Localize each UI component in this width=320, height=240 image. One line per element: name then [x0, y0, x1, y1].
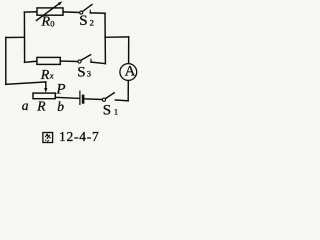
switch S3 blade [81, 55, 91, 61]
resistor R0 arrowhead [58, 1, 63, 5]
wire junction horizontal [105, 36, 129, 38]
svg-text:0: 0 [50, 19, 54, 29]
svg-text:x: x [49, 70, 54, 80]
svg-text:P: P [55, 81, 65, 97]
switch S2 contact tick [89, 10, 91, 13]
wire left vertical of parallel section [23, 12, 25, 62]
switch S2 blade [83, 5, 92, 12]
switch S1 blade [106, 93, 115, 99]
svg-text:a: a [22, 98, 29, 113]
wire b terminal to battery [55, 97, 79, 98]
wire S1 to bottom-right corner [115, 99, 128, 102]
svg-text:R: R [41, 15, 51, 30]
caption 图 (drawn glyph) [43, 133, 53, 143]
wire battery to S1 [84, 98, 102, 101]
battery short thick plate [82, 96, 85, 103]
wire far-left vertical [5, 38, 7, 85]
wire S2 to top-right corner [90, 12, 105, 14]
wire Rx to S3 [60, 60, 78, 62]
wire middle branch left segment [25, 61, 37, 62]
switch S3 pivot [78, 60, 81, 63]
svg-text:12-4-7: 12-4-7 [59, 129, 100, 144]
wire to slider P [6, 82, 46, 84]
svg-text:3: 3 [87, 68, 91, 78]
svg-text:2: 2 [90, 18, 94, 28]
svg-text:R: R [36, 98, 46, 113]
wire T-junction to far-left vertical [6, 36, 25, 38]
svg-text:R: R [40, 68, 50, 83]
svg-text:b: b [57, 99, 64, 114]
switch S1 pivot [102, 98, 105, 101]
svg-text:A: A [125, 64, 136, 80]
wire ammeter top to junction corner [128, 37, 130, 63]
battery long plate [79, 91, 81, 104]
svg-text:1: 1 [114, 107, 118, 117]
switch S3 contact tick [90, 59, 92, 62]
svg-text:S: S [79, 13, 87, 29]
wire S3 to middle-right corner [91, 62, 105, 64]
switch S2 pivot [80, 11, 83, 14]
slider P arrow [45, 82, 47, 89]
svg-text:S: S [77, 64, 85, 80]
rheostat R (box) [33, 93, 55, 99]
wire R0 to S2 [63, 11, 79, 14]
ammeter A (circle) [120, 64, 137, 81]
resistor R0 (box) [37, 8, 63, 15]
wire top branch left segment [24, 11, 37, 13]
resistor R0 arrow shaft [36, 4, 59, 21]
svg-text:S: S [103, 103, 111, 119]
wire right vertical of parallel section [104, 13, 106, 63]
resistor Rx (box) [37, 57, 60, 64]
wire corner up to ammeter [127, 81, 129, 101]
